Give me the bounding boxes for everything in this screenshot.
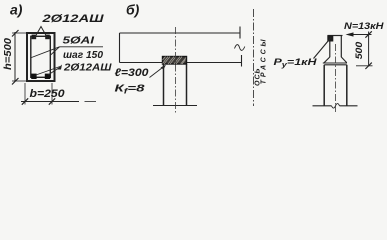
svg-text:ℓ=300: ℓ=300 (115, 67, 150, 79)
rebar top-left (32, 35, 37, 40)
beam section outline (27, 33, 55, 81)
leader branch to right stirrup leg (50, 47, 60, 56)
break tick bottom (241, 55, 243, 67)
leader arrowhead pad (161, 65, 167, 70)
ground line right (340, 105, 358, 107)
beam bottom chord (120, 62, 243, 64)
column top line (324, 64, 347, 66)
ground break squiggle (332, 104, 340, 109)
dimension h tick bottom (12, 78, 19, 85)
leader to top bars (35, 27, 48, 39)
dimension 500 tick top (365, 31, 371, 37)
dimension h=500 line (14, 32, 16, 82)
pedestal centerline (175, 27, 177, 113)
ground line left (313, 105, 332, 107)
beam left end (119, 33, 121, 63)
svg-text:500: 500 (354, 41, 365, 59)
post right side (340, 36, 342, 58)
force N arrow line (348, 34, 372, 36)
column centerline (335, 44, 337, 112)
svg-text:b=250: b=250 (30, 88, 66, 100)
svg-text:Кf=8: Кf=8 (115, 83, 145, 96)
svg-text:Ру=1кН: Ру=1кН (274, 57, 318, 69)
dimension b extension right (51, 83, 53, 105)
svg-text:а): а) (10, 2, 23, 18)
flare left (324, 57, 330, 63)
dimension 500 extension (356, 65, 373, 67)
dimension 500 line (368, 32, 370, 66)
beam top chord (120, 32, 241, 34)
bearing pad block (163, 57, 187, 65)
rebar bottom-left (31, 74, 36, 79)
svg-text:шаг 150: шаг 150 (63, 49, 103, 61)
column right side (346, 65, 348, 106)
post left side (329, 42, 331, 58)
pedestal base line (153, 105, 197, 107)
route axis centerline (253, 9, 255, 106)
dimension b tick right (49, 98, 55, 104)
svg-text:ТРАССЫ: ТРАССЫ (260, 37, 267, 85)
force N arrowhead (346, 32, 354, 36)
dimension h extension bottom (12, 80, 26, 82)
pedestal right side (186, 64, 188, 105)
rebar bottom-right (45, 74, 50, 79)
break squiggle (235, 45, 245, 51)
svg-text:5ØАI: 5ØАI (63, 35, 96, 47)
dimension b extension left (24, 83, 26, 105)
bracket block (327, 35, 333, 41)
post top edge (328, 35, 343, 37)
svg-text:N=13кН: N=13кН (344, 21, 385, 32)
dimension b tick left (22, 98, 28, 104)
break tick top (239, 27, 241, 39)
pedestal left side (163, 64, 165, 105)
flare right (341, 57, 347, 63)
rebar top-right (45, 35, 50, 40)
svg-text:б): б) (126, 2, 140, 18)
leader from bottom-right rebar (48, 69, 58, 76)
leader branch to left stirrup leg (32, 47, 60, 58)
column left side (323, 65, 325, 106)
dimension b line spur (85, 101, 97, 103)
dimension h tick top (12, 30, 19, 37)
dimension 500 tick bottom (365, 63, 371, 69)
leader from bottom-left rebar (35, 67, 61, 76)
stirrup (31, 36, 51, 77)
leader shelf for stirrup callout (60, 46, 104, 48)
bracket strut leader (314, 38, 332, 59)
svg-text:2Ø12АШ: 2Ø12АШ (41, 13, 104, 25)
leader arrowhead (57, 65, 63, 70)
leader to pad (150, 66, 165, 78)
svg-text:h=500: h=500 (3, 38, 14, 70)
dimension b=250 line (21, 101, 79, 103)
flange line (323, 62, 347, 64)
dimension h extension top (12, 32, 26, 34)
svg-text:2Ø12АШ: 2Ø12АШ (63, 62, 112, 74)
